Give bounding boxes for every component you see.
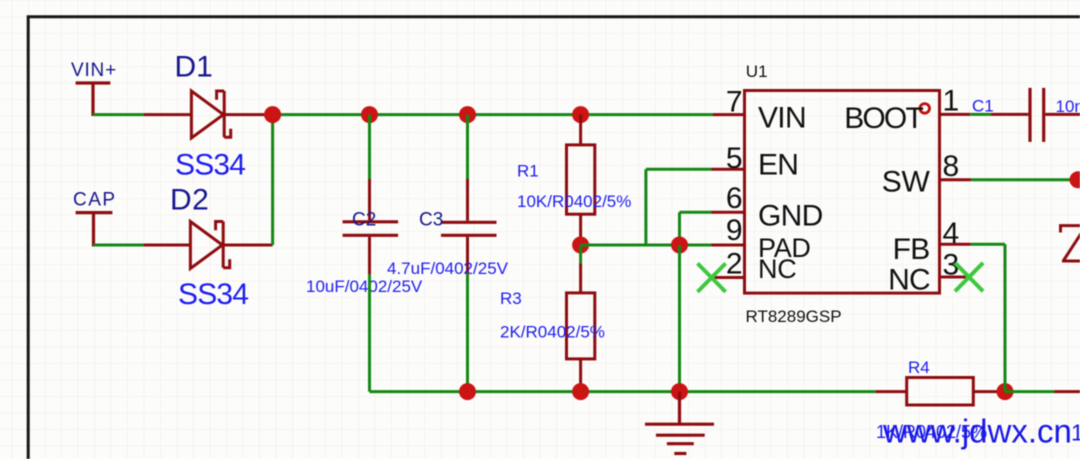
- svg-text:RT8289GSP: RT8289GSP: [746, 307, 842, 326]
- svg-text:GND: GND: [758, 200, 823, 233]
- svg-text:7: 7: [726, 86, 743, 119]
- svg-text:5: 5: [726, 142, 743, 175]
- wire BOOT net: [970, 113, 991, 116]
- svg-text:VIN: VIN: [758, 102, 806, 135]
- junction dot (GND node): [671, 237, 688, 254]
- no-connect X pin2: [698, 263, 726, 292]
- junction dot (R1/R3/EN node): [572, 237, 589, 254]
- wire GND net riser: [680, 212, 712, 245]
- junction dot (R3 bus): [572, 383, 589, 400]
- wire EN net: [581, 169, 712, 245]
- wire SW net: [971, 178, 1078, 181]
- diode D1 (schottky): [191, 91, 230, 138]
- junction dot (D1 cathode): [264, 106, 281, 123]
- svg-text:U1: U1: [746, 62, 768, 81]
- wire D2 cathode up to VIN rail: [271, 115, 274, 245]
- wire CAP to D2 anode: [94, 244, 144, 247]
- wire VIN+ to D1 anode: [93, 113, 144, 116]
- wire ground bus: [370, 390, 876, 393]
- pin lead R3 top: [579, 263, 582, 293]
- no-connect X pin3: [955, 263, 983, 292]
- pin lead U1 pin9: [712, 244, 745, 247]
- svg-text:C3: C3: [419, 210, 443, 231]
- op IC U1 body: [745, 91, 940, 294]
- svg-text:www.jdwx.cn: www.jdwx.cn: [882, 413, 1072, 450]
- wire R3 top: [579, 245, 582, 263]
- resistor R1: [567, 145, 595, 214]
- pin lead U1 pin5: [712, 168, 745, 171]
- wire C2 riser: [368, 115, 371, 179]
- svg-text:SW: SW: [882, 165, 931, 198]
- svg-text:SS34: SS34: [175, 148, 245, 181]
- svg-text:9: 9: [726, 214, 743, 247]
- wire C3 riser: [466, 115, 469, 179]
- diode D3 (partial at right edge): [1059, 226, 1080, 261]
- svg-text:D2: D2: [170, 184, 209, 217]
- svg-text:CAP: CAP: [73, 190, 117, 211]
- wire bus right of FB node: [1005, 390, 1054, 393]
- svg-text:2K/R0402/5%: 2K/R0402/5%: [500, 323, 605, 342]
- svg-text:VIN+: VIN+: [71, 60, 117, 81]
- pin lead R4 left: [876, 390, 907, 393]
- svg-text:R1: R1: [517, 161, 539, 180]
- svg-text:NC: NC: [888, 264, 930, 297]
- junction dot (ground bus): [671, 383, 688, 400]
- pin lead R1 bottom: [579, 214, 582, 245]
- diode D2 (schottky): [190, 222, 229, 269]
- junction dot (C3 bus): [459, 383, 476, 400]
- svg-text:D1: D1: [175, 51, 213, 84]
- pin lead R1 top: [579, 115, 582, 145]
- pin lead U1 pin8: [940, 178, 971, 181]
- junction dot (FB node): [997, 383, 1014, 400]
- wire VIN rail: [273, 113, 713, 116]
- pin lead C1 left: [991, 113, 1029, 116]
- svg-text:SS34: SS34: [178, 278, 248, 311]
- svg-text:BOOT: BOOT: [844, 102, 923, 135]
- junction dot (SW at edge): [1070, 171, 1080, 188]
- pin lead D1 cathode: [224, 113, 272, 116]
- svg-text:10uF/0402/25V: 10uF/0402/25V: [306, 277, 423, 296]
- svg-text:4.7uF/0402/25V: 4.7uF/0402/25V: [387, 259, 509, 278]
- wire FB riser: [971, 244, 1005, 391]
- svg-text:NC: NC: [758, 254, 796, 284]
- svg-text:FB: FB: [893, 233, 930, 266]
- wire C2 to ground bus: [368, 274, 371, 392]
- svg-text:1: 1: [1071, 420, 1080, 446]
- svg-text:10K/R0402/5%: 10K/R0402/5%: [517, 192, 631, 211]
- svg-text:EN: EN: [758, 149, 798, 182]
- svg-text:6: 6: [726, 182, 743, 215]
- pin lead U1 pin7: [713, 113, 744, 116]
- pin lead R4 right: [973, 390, 1005, 393]
- svg-text:4: 4: [943, 217, 960, 250]
- svg-text:2: 2: [726, 248, 743, 281]
- capacitor C1: [1030, 88, 1044, 142]
- capacitor C3: [441, 179, 497, 273]
- pin lead D1 anode: [144, 113, 192, 116]
- wire GND node to ground bus: [678, 245, 681, 392]
- port VIN+: [76, 83, 111, 116]
- svg-text:R3: R3: [500, 289, 522, 308]
- junction dot (R1 tap): [572, 106, 589, 123]
- junction dot (C3 tap): [459, 106, 476, 123]
- svg-text:1: 1: [943, 85, 960, 118]
- pin lead C1 right: [1045, 113, 1080, 116]
- port CAP: [76, 213, 113, 247]
- svg-text:C2: C2: [352, 210, 376, 231]
- resistor R3: [567, 293, 595, 359]
- pin lead U1 pin6: [712, 211, 745, 214]
- ground: [645, 392, 714, 454]
- pin lead off-sheet right: [1054, 390, 1080, 393]
- pin lead U1 pin2: [713, 276, 744, 279]
- pin lead U1 pin1: [940, 113, 971, 116]
- pin lead D2 anode: [144, 244, 191, 247]
- bubble BOOT pin: [920, 104, 930, 114]
- junction dot (C2 tap): [361, 106, 378, 123]
- pin lead U1 pin4: [940, 243, 971, 246]
- pin lead U1 pin3: [940, 276, 970, 279]
- pin lead D2 cathode: [223, 244, 272, 247]
- svg-text:C1: C1: [972, 97, 994, 116]
- capacitor C2: [343, 179, 399, 274]
- resistor R4: [907, 378, 974, 406]
- svg-text:8: 8: [943, 150, 960, 183]
- wire C3 to ground bus: [466, 273, 469, 392]
- svg-text:R4: R4: [908, 358, 930, 377]
- pin lead R3 bottom: [579, 359, 582, 392]
